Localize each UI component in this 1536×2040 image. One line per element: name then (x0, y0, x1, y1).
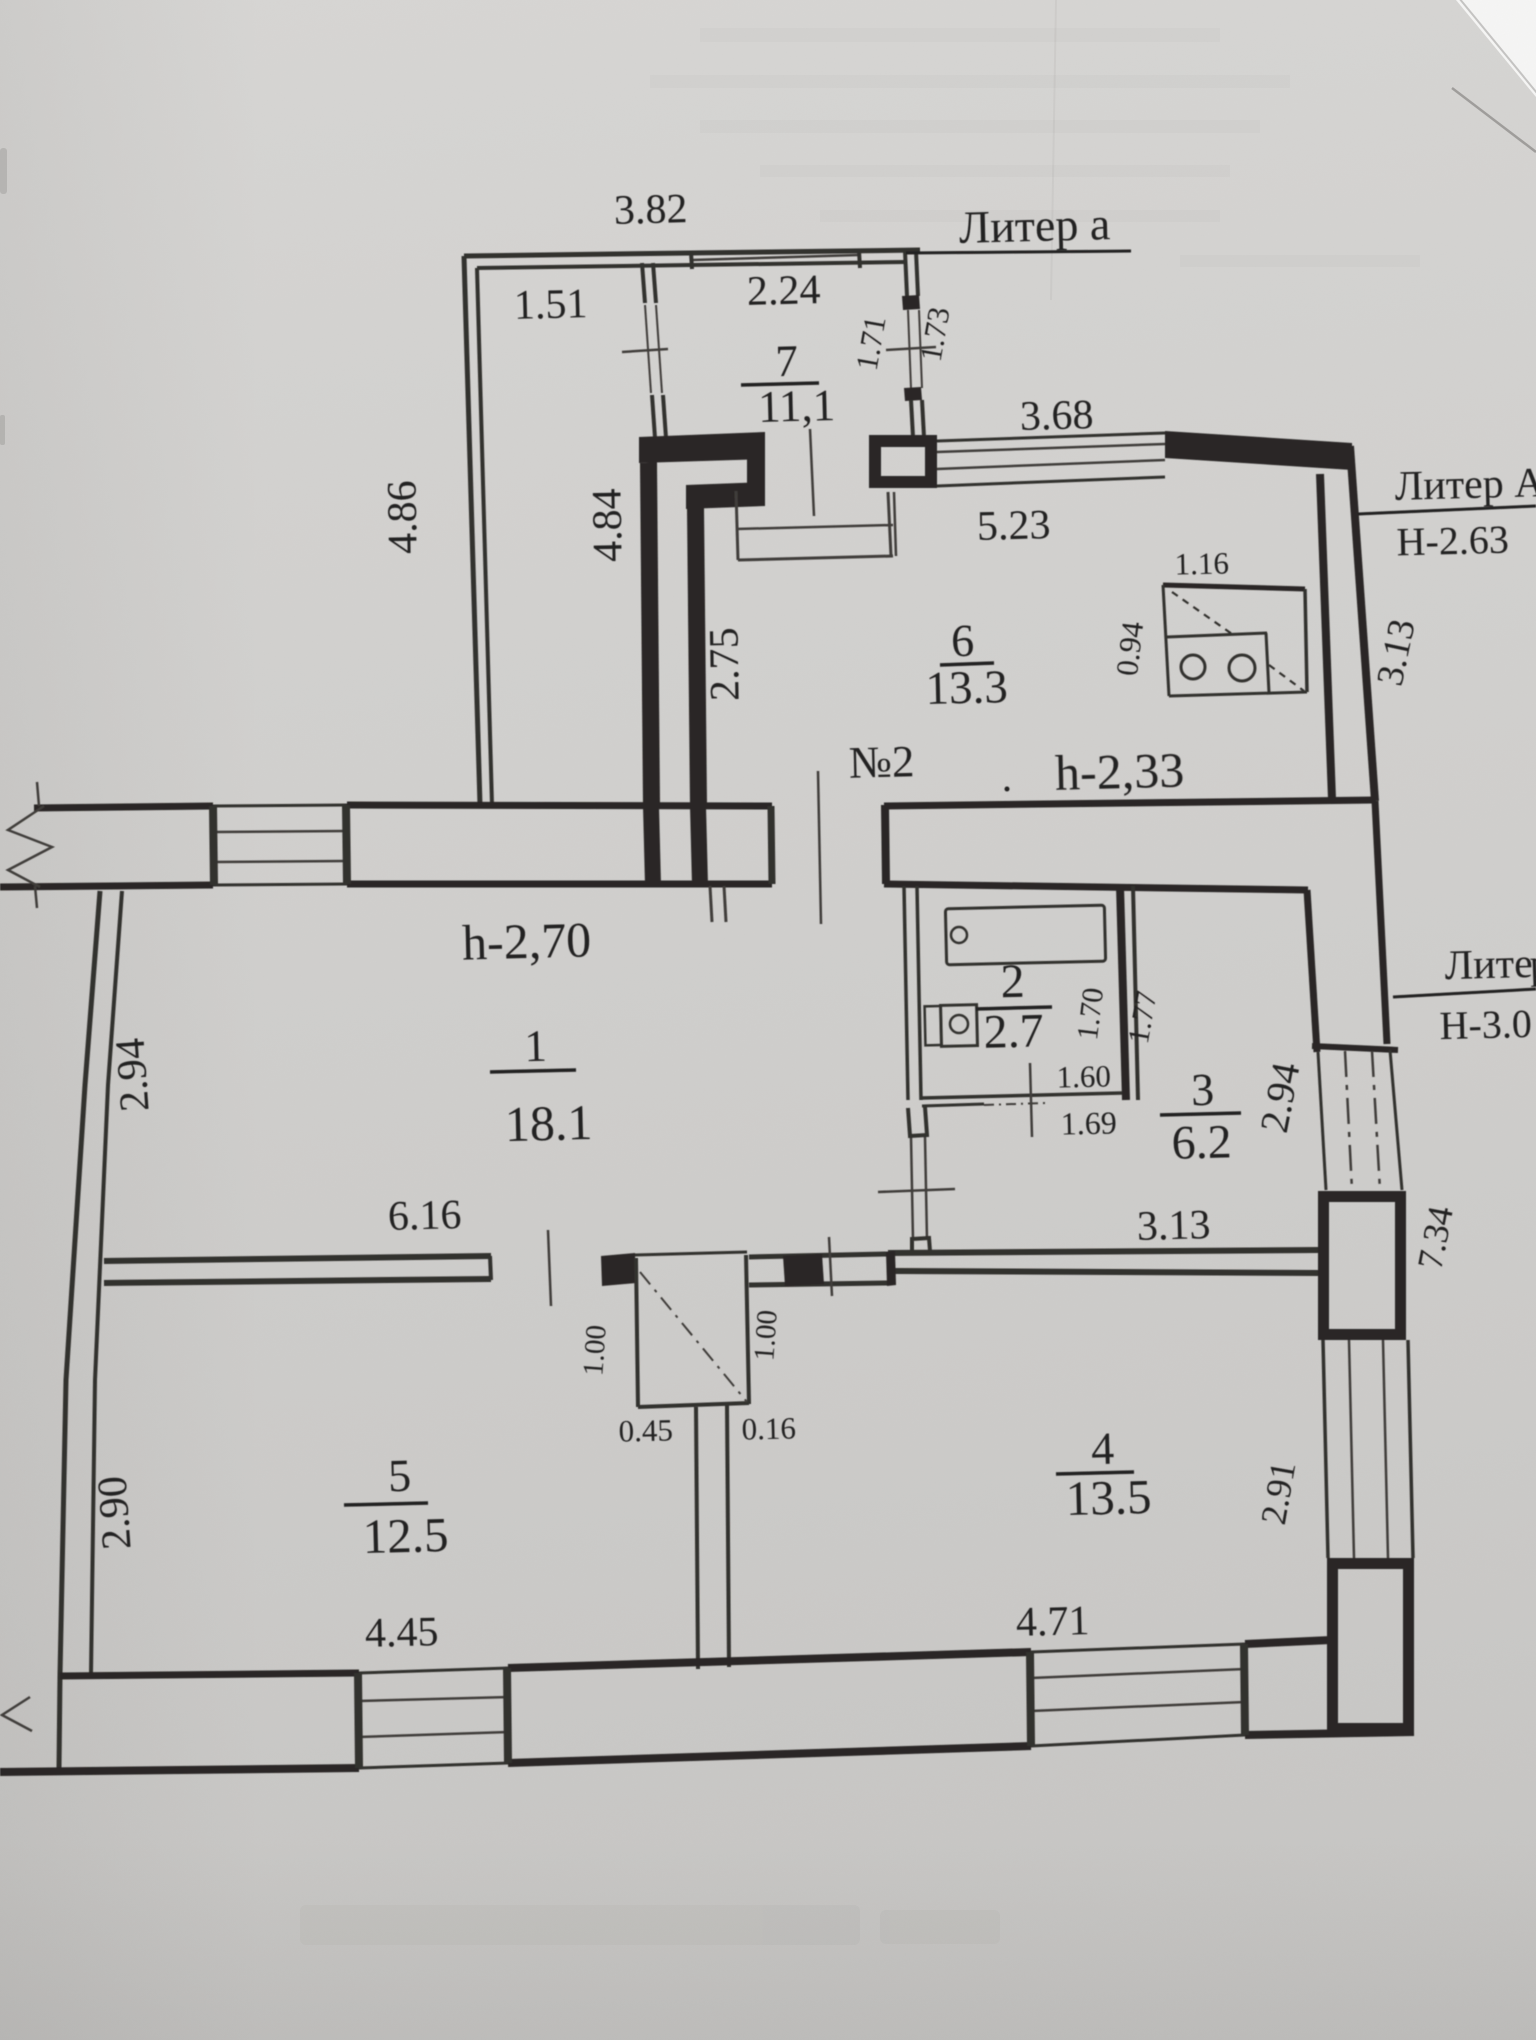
wall: main wall top edge left of window (34, 806, 213, 808)
underline: Liter a (906, 251, 1131, 253)
window 4.71 top thin line (1031, 1644, 1245, 1652)
wall: main wall top edge right of door (884, 800, 1375, 806)
svg-text:2.94: 2.94 (108, 1037, 159, 1114)
svg-text:№2: №2 (848, 736, 915, 788)
svg-text:2.75: 2.75 (701, 627, 748, 701)
svg-text:13.5: 13.5 (1065, 1469, 1152, 1526)
window: veranda top middle line (2.24 window) (692, 255, 858, 260)
door: bath dashed opening (984, 1103, 1045, 1105)
wall: bottom wall top edge right segment (1245, 1640, 1331, 1644)
fraction line room 3 (1160, 1113, 1241, 1115)
jamb: partition bottom (912, 1238, 930, 1252)
bathtub (945, 905, 1105, 965)
wall: room6 east wall outer line (1350, 446, 1375, 801)
jamb: main wall window right (346, 805, 347, 884)
svg-text:3: 3 (1191, 1064, 1215, 1116)
fraction line room 5 (344, 1503, 428, 1505)
wall: bath south wall double line (922, 1093, 1122, 1098)
wall: bottom wall bottom edge middle (508, 1746, 1031, 1763)
wall: veranda left inner line (477, 268, 492, 805)
svg-text:р: р (1529, 941, 1536, 988)
window: room7 right wall thin lines (908, 310, 911, 388)
wall: 3.13 wall left part from vestibule (749, 1254, 888, 1257)
toilet (925, 1006, 942, 1045)
window 3.68: four thin lines (937, 433, 1165, 441)
svg-text:Лите: Лите (1444, 941, 1533, 989)
wall: bottom wall bottom edge left (0, 1768, 359, 1772)
break symbol: bottom wall left end (2, 1697, 32, 1731)
wall: room6 east wall inner line (1320, 474, 1332, 799)
wall: main wall bottom edge left of window (0, 885, 213, 887)
svg-text:12.5: 12.5 (362, 1507, 449, 1564)
svg-text:0.16: 0.16 (741, 1410, 796, 1446)
pillar: south-east corner pillar (1333, 1564, 1409, 1729)
fraction line room 7 (741, 383, 819, 385)
svg-text:Литер А: Литер А (1394, 460, 1536, 510)
wall: left wall inner line (91, 891, 122, 1674)
svg-text:3.68: 3.68 (1019, 392, 1094, 440)
tick: 3.13 wall dimension at x830 (829, 1237, 832, 1296)
wall: veranda left outer line (4.86) (464, 256, 480, 805)
svg-text:2.7: 2.7 (983, 1004, 1044, 1058)
svg-text:h-2,33: h-2,33 (1054, 741, 1184, 800)
jamb: veranda top window left (691, 252, 692, 269)
wall: main wall bottom edge right of door (884, 884, 1308, 890)
wall: bath east wall thick line (1120, 886, 1126, 1100)
svg-text:13.3: 13.3 (925, 661, 1008, 715)
pillar: right wall middle pillar (1324, 1197, 1401, 1335)
svg-text:4.86: 4.86 (379, 480, 426, 554)
fraction line room 1 (490, 1070, 576, 1072)
wall: main wall bottom edge center (347, 881, 772, 888)
wall: veranda top outer line (464, 250, 920, 256)
tick: partition dimension cross (622, 349, 668, 352)
vestibule top line continuation (635, 1252, 747, 1255)
stove: diagonal dashed line lower (1269, 665, 1304, 691)
svg-text:1.60: 1.60 (1056, 1058, 1111, 1094)
shading left edge (0, 0, 260, 2040)
window: main wall window bottom thin line (213, 884, 347, 885)
svg-text:Н-3.0: Н-3.0 (1439, 1001, 1532, 1048)
underline: lower Liter (1393, 989, 1536, 997)
wall: main wall top edge center (347, 805, 772, 806)
svg-text:3.13: 3.13 (1136, 1202, 1211, 1250)
svg-text:1.69: 1.69 (1060, 1104, 1117, 1141)
svg-text:0.45: 0.45 (618, 1412, 673, 1448)
wall: 6.16 wall bottom line (104, 1279, 491, 1283)
wall: bottom wall bottom edge right (to pillar) (1245, 1732, 1414, 1735)
wall: veranda top inner line (477, 262, 906, 268)
svg-text:h-2,70: h-2,70 (461, 911, 591, 970)
jamb: door N2 right cap (881, 805, 890, 884)
fraction line room 4 (1056, 1472, 1134, 1474)
jamb: window 4.71 left (1030, 1652, 1031, 1746)
wall: bottom wall top edge middle segment (508, 1652, 1031, 1668)
vestibule diagonal door swing dashed (640, 1272, 747, 1402)
wall: room6 west wall outer bar (640, 462, 660, 807)
window 4.71 bottom thin line (1031, 1735, 1245, 1746)
svg-text:1.51: 1.51 (513, 281, 588, 329)
wall: partition rooms 5/4 double line (696, 1407, 698, 1669)
tick: door N2 dimension line (818, 771, 821, 924)
jamb: 3.13 wall left end cap (886, 1251, 896, 1286)
svg-text:6: 6 (951, 615, 975, 667)
svg-text:6.16: 6.16 (387, 1192, 462, 1240)
wall: partition veranda/room7 lower segment (652, 395, 655, 438)
wall: left wall outer below bottom-wall top (59, 1675, 60, 1768)
window: main wall window top thin line (213, 805, 347, 806)
wall: partition below bath double thin (911, 1137, 913, 1240)
jamb: vestibule left block (601, 1253, 636, 1286)
svg-text:2: 2 (1000, 955, 1025, 1009)
windowsill rectangle below room6 north wall (736, 491, 738, 560)
wall: room6 west wall inner bar (687, 507, 707, 807)
window 4.45 bottom thin line (359, 1763, 508, 1768)
wall: lower east wall inner line (1307, 890, 1317, 1052)
tick: bath south dimension (1030, 1063, 1032, 1137)
wall: short jamb lines below main wall at room6 doorway (710, 886, 712, 922)
svg-text:4.84: 4.84 (584, 488, 631, 562)
svg-text:5: 5 (388, 1450, 412, 1502)
break symbol: main wall left end (8, 806, 52, 887)
wall: room6 north-left corner step down (747, 457, 765, 489)
svg-text:2.24: 2.24 (746, 267, 821, 315)
svg-text:1: 1 (524, 1021, 548, 1072)
svg-text:Литер а: Литер а (958, 198, 1110, 253)
jamb: dark block in 3.13 wall (783, 1254, 824, 1286)
svg-text:1.16: 1.16 (1174, 545, 1229, 581)
wall: room6 north wall right segment (thick) (1165, 431, 1352, 470)
stove: inner division lines (1167, 633, 1267, 637)
stove: burner circle left (1181, 655, 1205, 679)
wall: 3.13 wall right part bottom line (894, 1271, 1319, 1273)
svg-text:1.00: 1.00 (748, 1309, 783, 1362)
svg-text:18.1: 18.1 (504, 1094, 593, 1152)
wall: lower east wall outer line (1375, 801, 1387, 1044)
jamb: room7 right window top (902, 295, 920, 310)
window right-middle (east) vertical lines (1318, 1052, 1326, 1190)
faint vertical fold crease top center (1051, 0, 1056, 300)
tick: 6.16 door dimension (548, 1230, 551, 1306)
jamb: window 4.71 right (1244, 1644, 1245, 1735)
fraction line room 2 (976, 1007, 1052, 1009)
svg-text:4.71: 4.71 (1015, 1598, 1090, 1646)
tick: room7 right window cross (886, 347, 936, 350)
window 4.45 middle lines (359, 1697, 508, 1701)
window 4.45 top thin line (359, 1668, 508, 1673)
jamb: room6 west outer bar through main wall (643, 806, 661, 885)
wall: 3.13 wall right part top line (888, 1250, 1319, 1253)
wall: room6 step horizontal to west wall (686, 482, 765, 509)
stove: diagonal dashed line upper (1172, 592, 1232, 634)
jamb: partition top (908, 1107, 927, 1136)
underline: Liter A (1358, 506, 1536, 514)
svg-text:1.70: 1.70 (1071, 986, 1110, 1042)
jamb: window 4.45 right (507, 1668, 508, 1763)
cap above window 2.94-right (1312, 1046, 1398, 1050)
stove: outer rectangle (1163, 585, 1307, 696)
wall: room7 right wall upper segment (905, 251, 907, 296)
wall: 6.16 wall top line (104, 1256, 491, 1261)
wall: bath east wall second line (1133, 886, 1138, 1100)
jamb: door N2 left cap (771, 806, 772, 884)
window: partition opening thin lines (645, 305, 651, 393)
window 4.71 middle lines (1031, 1669, 1245, 1678)
leader line from room7 area label (810, 429, 814, 516)
wall: room7 right wall lower segment (911, 400, 913, 437)
window 2.91 vertical lines (1323, 1340, 1328, 1558)
faint bleed-through large text bottom (300, 1905, 1000, 1945)
jamb: window 4.45 left (358, 1673, 359, 1768)
jamb: room7 right window bottom (904, 387, 922, 401)
fraction line room 6 (940, 663, 994, 665)
wall: left wall outer line (60, 891, 100, 1675)
paper edge diagonal line top-right (1452, 88, 1536, 152)
svg-text:1.00: 1.00 (577, 1324, 612, 1377)
svg-text:4.45: 4.45 (364, 1609, 439, 1657)
faint smudges left edge (0, 148, 7, 445)
svg-text:0.94: 0.94 (1109, 619, 1150, 678)
pillar: square chimney at room7/room6 junction (875, 441, 931, 482)
jamb: veranda top window right (859, 251, 860, 268)
wall: bath west wall double line (904, 886, 908, 1100)
tick: partition dimension cross (878, 1189, 955, 1192)
shading bottom (0, 1840, 1536, 2040)
svg-text:3.82: 3.82 (613, 186, 688, 234)
svg-text:11,1: 11,1 (757, 380, 835, 432)
svg-text:2.90: 2.90 (90, 1475, 141, 1552)
wall: room6 north wall left segment (thick) (639, 432, 765, 463)
jamb: 6.16 door left cap (490, 1256, 491, 1280)
stove: burner circle right (1229, 655, 1255, 681)
wall: partition veranda/room7 left line (642, 263, 645, 303)
svg-text:6.2: 6.2 (1171, 1115, 1232, 1169)
faint bleed-through texture top (650, 28, 1420, 267)
vestibule box walls (636, 1258, 638, 1407)
svg-text:Н-2.63: Н-2.63 (1396, 517, 1509, 565)
svg-text:5.23: 5.23 (976, 502, 1051, 550)
window: main wall window middle lines (214, 831, 346, 832)
svg-text:4: 4 (1091, 1423, 1115, 1475)
photo corner: white background beyond paper edge top-right (1456, 0, 1536, 97)
wall: bottom wall top edge left segment (60, 1673, 359, 1676)
speck between N2 and h-2,33 (1005, 787, 1010, 792)
svg-text:7: 7 (775, 336, 799, 387)
jamb: main wall window left (213, 806, 214, 885)
jamb: room6 west inner bar through main wall (690, 806, 708, 885)
